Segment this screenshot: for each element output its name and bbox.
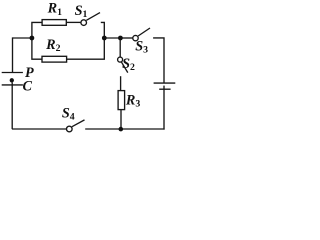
bottom node junction dot: [119, 127, 124, 132]
resistor R1: [42, 20, 66, 26]
capacitor C top plate: [2, 72, 23, 74]
resistor R3: [118, 91, 125, 110]
node A junction dot: [30, 36, 35, 41]
wire right column lower (battery negative lead with stem): [163, 86, 165, 130]
wire middle-left horizontal: [13, 37, 32, 39]
svg-text:S3: S3: [135, 39, 148, 56]
svg-text:C: C: [23, 79, 33, 95]
svg-text:S1: S1: [75, 3, 88, 20]
switch S4 blade: [72, 120, 85, 127]
switch S3 blade: [138, 28, 150, 36]
wire R2 branch left riser: [32, 37, 42, 59]
wire bottom left: [12, 128, 67, 130]
wire R1 branch left riser: [32, 22, 42, 38]
wire left column upper (to capacitor top plate): [12, 37, 14, 72]
node B junction dot: [102, 36, 107, 41]
wire node B to node C: [104, 37, 120, 39]
svg-text:R2: R2: [45, 37, 60, 54]
particle P dot: [10, 78, 14, 82]
wire S2 column upper: [119, 38, 121, 57]
battery positive plate: [154, 82, 176, 84]
svg-text:R1: R1: [47, 1, 62, 18]
switch S4 pivot: [67, 126, 73, 132]
switch S1 pivot: [81, 20, 87, 26]
svg-text:S4: S4: [62, 106, 75, 123]
wire S2 to R3: [120, 76, 122, 90]
switch S2 blade: [121, 62, 128, 73]
switch S3 pivot: [133, 35, 138, 40]
battery negative plate: [159, 88, 170, 90]
wire R2 right to node B: [67, 38, 105, 59]
wire R1 to S1: [66, 21, 81, 23]
node C junction dot: [118, 36, 123, 41]
switch S2 pivot: [118, 57, 123, 62]
svg-text:R3: R3: [125, 93, 140, 110]
capacitor C bottom plate: [2, 84, 23, 86]
switch S1 blade: [86, 13, 100, 21]
resistor R2: [42, 56, 67, 62]
wire bottom right: [85, 128, 164, 130]
wire left column lower (particle stem through bottom plate to bottom wire): [11, 82, 13, 129]
wire R3 to bottom: [120, 110, 122, 129]
switch S1 right contact to node B: [101, 22, 105, 38]
svg-text:S2: S2: [122, 56, 135, 73]
wire right column upper + S3 right contact stub: [153, 38, 164, 83]
wire node C to S3: [120, 37, 132, 39]
